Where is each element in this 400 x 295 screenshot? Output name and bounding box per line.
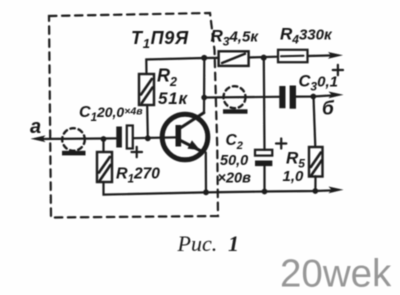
- capacitor C1 plate right (hollow +): [127, 126, 133, 149]
- telephone symbol output (dashed circle): [224, 86, 246, 108]
- wire collector vertical: [203, 58, 206, 113]
- capacitor C2 plate bottom: [255, 161, 272, 167]
- svg-text:51к: 51к: [158, 89, 189, 108]
- telephone symbol input bar: [62, 151, 86, 156]
- wire R2 top to top rail: [146, 58, 218, 74]
- svg-text:20wek: 20wek: [280, 253, 392, 295]
- wire C1 to base node: [133, 136, 176, 139]
- svg-text:C2: C2: [226, 132, 243, 152]
- svg-text:R34,5к: R34,5к: [211, 27, 260, 49]
- wire C2 bottom lead: [263, 166, 265, 192]
- svg-text:Рис.: Рис.: [177, 231, 218, 256]
- wire R5 bottom lead: [314, 176, 316, 191]
- plus sign C3: [333, 65, 343, 75]
- dashed enclosure box: [49, 13, 218, 218]
- wire emitter vertical: [205, 153, 207, 193]
- capacitor C3 plate right: [290, 86, 296, 109]
- wire bottom rail: [206, 190, 334, 192]
- wire R2 bottom lead: [146, 105, 149, 138]
- arrowhead supply top (right): [328, 52, 343, 59]
- wire R5 top lead: [314, 97, 316, 148]
- wire R1 bottom lead: [104, 182, 207, 195]
- plus sign C1: [132, 147, 143, 157]
- transistor collector line: [180, 113, 204, 129]
- resistor R2: [139, 74, 154, 105]
- plus sign C2: [276, 139, 286, 149]
- transistor emitter line: [179, 140, 202, 152]
- capacitor C1 plate left: [116, 127, 122, 148]
- resistor R5: [309, 147, 323, 177]
- resistor R1: [97, 152, 112, 182]
- arrowhead input (left): [31, 135, 46, 142]
- svg-text:б: б: [322, 99, 335, 120]
- wire C2 top branch: [263, 57, 266, 149]
- resistor R3: [219, 51, 249, 66]
- wire R1 top lead: [102, 139, 104, 152]
- transistor Q1 circle: [162, 114, 208, 160]
- svg-text:R4330к: R4330к: [280, 25, 333, 47]
- wire C3 to output arrow: [296, 95, 334, 96]
- capacitor C3 plate left: [279, 86, 285, 108]
- svg-text:50,0: 50,0: [220, 153, 248, 169]
- svg-text:а: а: [30, 116, 41, 138]
- resistor R4: [278, 50, 308, 62]
- svg-text:1,0: 1,0: [283, 168, 305, 185]
- telephone symbol output bar: [223, 109, 248, 113]
- transistor base bar: [176, 125, 182, 147]
- transistor emitter arrowhead: [188, 140, 201, 150]
- arrowhead output (right): [329, 92, 344, 99]
- svg-text:R1270: R1270: [116, 166, 160, 186]
- arrowhead supply bottom (right): [329, 187, 344, 194]
- wire R3 to R4: [249, 56, 278, 59]
- wire input horizontal: [40, 137, 116, 140]
- telephone symbol input (dashed circle): [62, 128, 85, 151]
- wire R4 to supply arrow: [308, 54, 335, 57]
- svg-text:Т1П9Я: Т1П9Я: [131, 28, 189, 51]
- svg-text:R2: R2: [157, 66, 177, 90]
- capacitor C2 plate top (hollow +): [255, 150, 272, 156]
- svg-text:C120,0×4в: C120,0×4в: [79, 104, 143, 124]
- svg-text:C30,1: C30,1: [299, 73, 338, 94]
- svg-text:1: 1: [228, 231, 239, 256]
- wire collector tap to C3: [204, 96, 279, 99]
- svg-text:×20в: ×20в: [218, 171, 252, 187]
